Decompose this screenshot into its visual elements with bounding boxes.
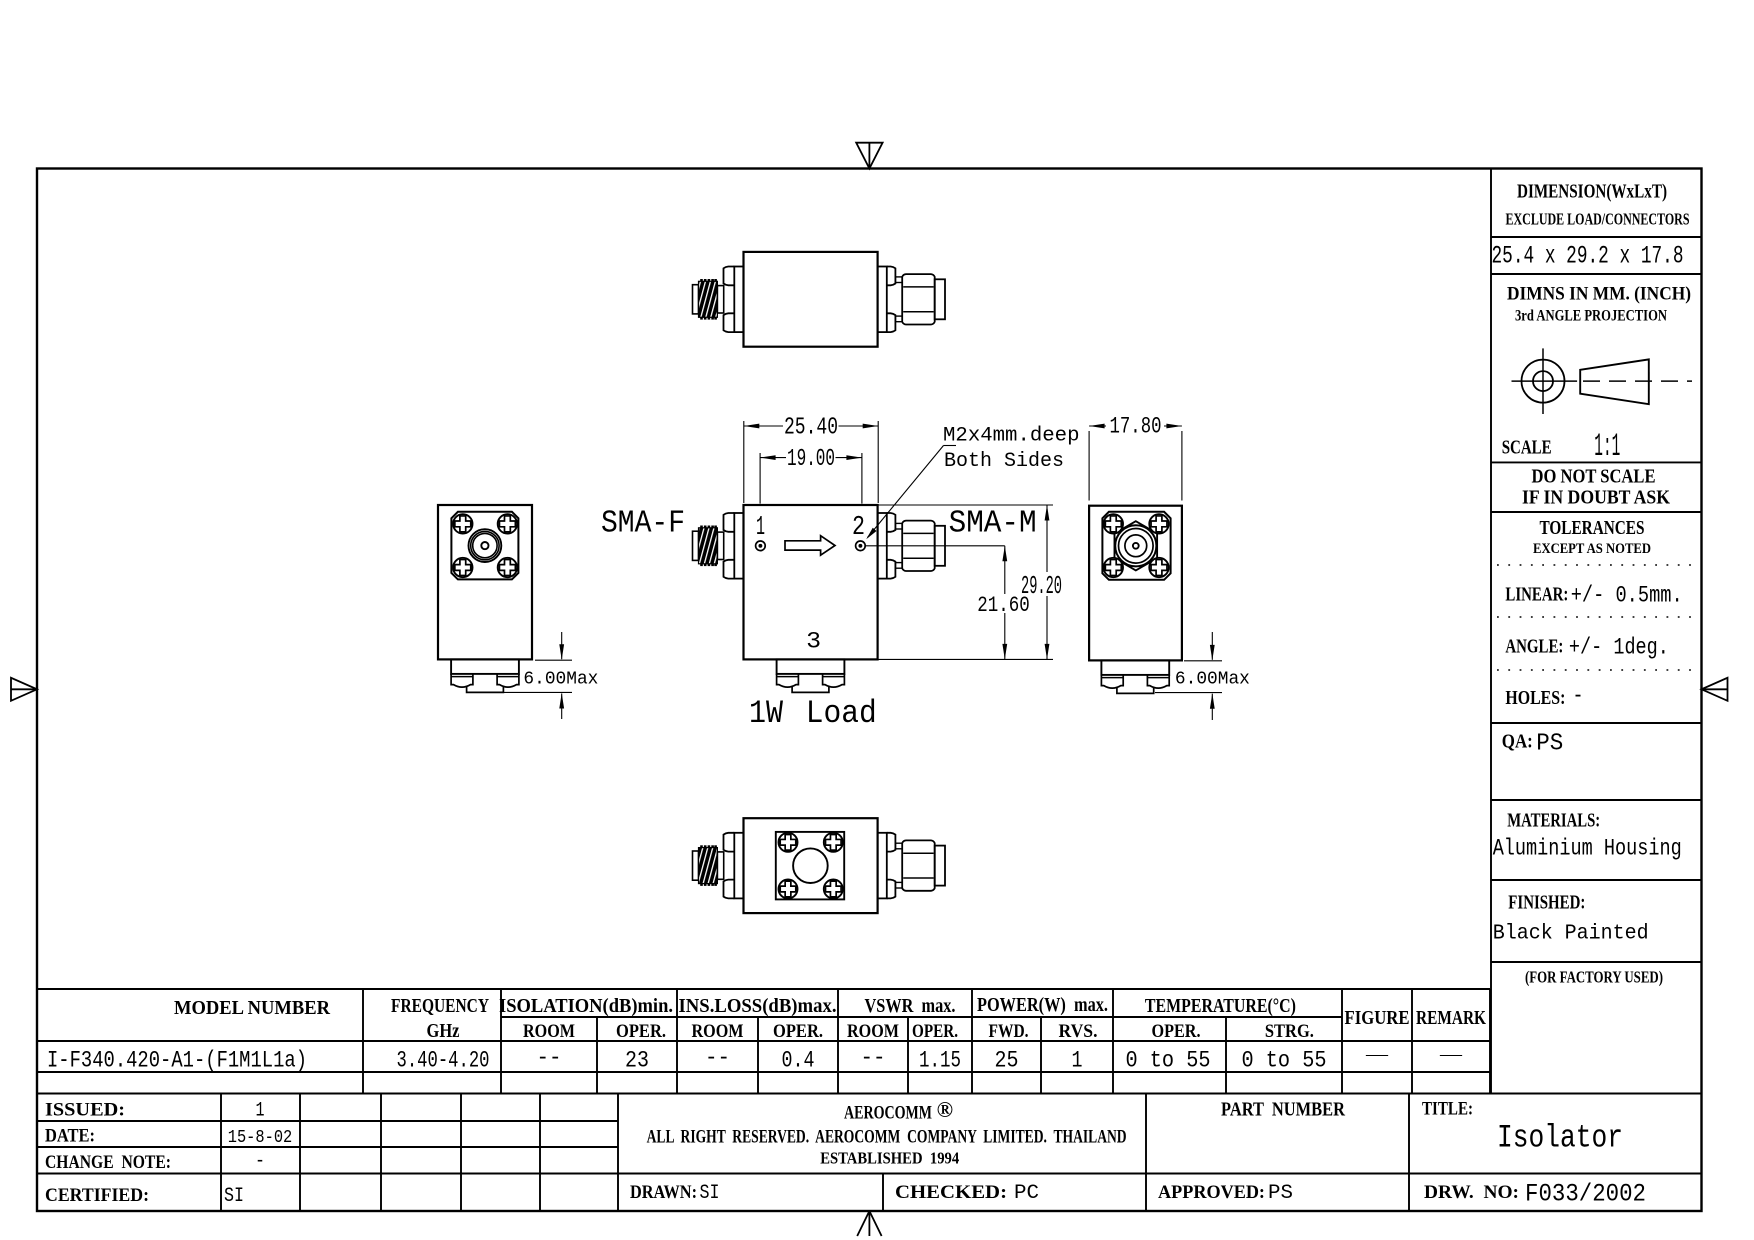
SMA-F flange plate	[734, 267, 743, 333]
svg-text:(FOR FACTORY USED): (FOR FACTORY USED)	[1525, 968, 1663, 987]
registration mark bottom	[868, 1211, 870, 1236]
svg-text:SMA-M: SMA-M	[949, 507, 1037, 542]
bottom view body	[744, 818, 878, 913]
svg-text:STRG.: STRG.	[1265, 1022, 1314, 1042]
SMA-M stub bottom	[895, 316, 902, 322]
info panel dividers	[1491, 236, 1702, 238]
SMA-M flange tab bottom	[887, 313, 896, 332]
svg-text:DIMNS IN MM. (INCH): DIMNS IN MM. (INCH)	[1507, 284, 1691, 305]
svg-text:HOLES:: HOLES:	[1505, 688, 1565, 709]
load body	[1101, 660, 1169, 675]
SMA-F mating face	[693, 851, 699, 880]
bottom block top line	[37, 1093, 1702, 1095]
svg-text:MATERIALS:: MATERIALS:	[1507, 811, 1600, 832]
svg-text:SI: SI	[700, 1182, 720, 1205]
svg-text:FWD.: FWD.	[989, 1022, 1029, 1042]
bottom block row lines	[37, 1120, 618, 1122]
svg-text:ALL RIGHT RESERVED. AEROCOM: ALL RIGHT RESERVED. AEROCOMM COMPANY LIM…	[647, 1127, 1127, 1148]
svg-text:1.15: 1.15	[919, 1048, 961, 1074]
svg-text:PART NUMBER: PART NUMBER	[1221, 1100, 1346, 1121]
right view flange plate	[1102, 512, 1170, 580]
svg-text:19.00: 19.00	[787, 446, 835, 473]
svg-text:6.00Max: 6.00Max	[1175, 669, 1250, 689]
SMA-F mating face	[693, 531, 699, 560]
svg-text:15-8-02: 15-8-02	[228, 1127, 293, 1148]
svg-text:VSWR max.: VSWR max.	[865, 996, 956, 1017]
load bottom plate	[792, 686, 829, 693]
SMA-F flange tab bottom	[724, 560, 735, 579]
svg-text:PS: PS	[1268, 1182, 1293, 1205]
load right foot	[823, 674, 845, 687]
svg-text:0.4: 0.4	[782, 1048, 815, 1074]
SMA-F flange plate	[734, 513, 743, 579]
svg-text:CERTIFIED:: CERTIFIED:	[45, 1185, 149, 1206]
svg-text:ISOLATION(dB)min.: ISOLATION(dB)min.	[499, 996, 673, 1017]
svg-text:EXCEPT AS NOTED: EXCEPT AS NOTED	[1533, 541, 1651, 557]
SMA-M stub top	[895, 277, 902, 283]
spec table horizontals	[501, 1016, 1342, 1018]
svg-text:PS: PS	[1536, 731, 1563, 758]
svg-text:25.4 x 29.2 x 17.8: 25.4 x 29.2 x 17.8	[1492, 242, 1684, 271]
svg-text:I-F340.420-A1-(F1M1L1a): I-F340.420-A1-(F1M1L1a)	[47, 1048, 307, 1074]
svg-text:CHECKED:: CHECKED:	[895, 1182, 1007, 1203]
SMA-M barrel	[935, 279, 945, 319]
bottom view load plate	[776, 832, 844, 900]
svg-text:Both Sides: Both Sides	[944, 450, 1064, 473]
svg-text:17.80: 17.80	[1110, 414, 1162, 440]
spec table verticals	[362, 989, 364, 1094]
load bottom plate	[467, 686, 504, 693]
SMA-F mating face	[693, 285, 699, 314]
svg-text:TITLE:: TITLE:	[1422, 1099, 1473, 1120]
dimension 21.60	[1004, 546, 1006, 594]
svg-text:IF IN DOUBT ASK: IF IN DOUBT ASK	[1522, 488, 1671, 509]
right view 17.80 dimension	[1088, 431, 1090, 501]
bottom load screw top-right	[824, 833, 843, 852]
load bottom plate	[1117, 687, 1154, 694]
svg-text:PC: PC	[1014, 1182, 1039, 1205]
svg-text:APPROVED:: APPROVED:	[1158, 1182, 1265, 1203]
SMA-F connector threaded barrel	[699, 281, 718, 317]
dimension 19.00	[759, 453, 761, 504]
SMA-F thread crests	[700, 279, 703, 281]
svg-text:CHANGE NOTE:: CHANGE NOTE:	[45, 1152, 171, 1173]
SMA-F connector threaded barrel	[699, 528, 718, 564]
svg-text:DRAWN:: DRAWN:	[630, 1182, 697, 1203]
extension line 29.20 top	[878, 504, 1053, 506]
svg-text:ESTABLISHED 1994: ESTABLISHED 1994	[820, 1149, 960, 1168]
load body	[451, 659, 519, 674]
projection symbol centreline	[1583, 380, 1692, 382]
svg-text:OPER.: OPER.	[616, 1022, 666, 1042]
drawing sheet border	[37, 169, 1702, 1212]
svg-text:1: 1	[756, 513, 765, 543]
svg-text:EXCLUDE LOAD/CONNECTORS: EXCLUDE LOAD/CONNECTORS	[1506, 210, 1690, 229]
left view screw bottom-left	[453, 558, 472, 577]
registration mark right	[1702, 678, 1728, 701]
svg-text:F033/2002: F033/2002	[1525, 1180, 1646, 1209]
svg-text:DIMENSION(WxLxT): DIMENSION(WxLxT)	[1517, 181, 1667, 203]
right view screw bottom-right	[1149, 558, 1168, 577]
SMA-M hex nut	[902, 274, 935, 324]
SMA-M stub top	[895, 843, 902, 849]
port 2 marker	[856, 541, 866, 551]
right view connector circles	[1115, 525, 1156, 566]
SMA-F flange tab top	[724, 833, 735, 852]
SMA-M hex nut	[902, 521, 935, 571]
left side view body	[438, 505, 532, 659]
dimension 29.20	[1046, 505, 1048, 572]
svg-text:0 to 55: 0 to 55	[1242, 1048, 1327, 1074]
info panel left edge	[1490, 169, 1492, 1095]
SMA-M barrel	[935, 526, 945, 566]
svg-text:ROOM: ROOM	[847, 1022, 899, 1042]
SMA-M hex nut	[902, 840, 935, 890]
svg-text:MODEL NUMBER: MODEL NUMBER	[174, 998, 331, 1019]
SMA-M flange plate	[878, 513, 887, 579]
right view screw bottom-left	[1104, 558, 1123, 577]
svg-text:RVS.: RVS.	[1059, 1022, 1098, 1042]
svg-text:TEMPERATURE(°C): TEMPERATURE(°C)	[1145, 996, 1296, 1017]
svg-text:Isolator: Isolator	[1497, 1120, 1623, 1157]
right side view body	[1089, 506, 1182, 661]
SMA-M flange plate	[878, 267, 887, 333]
svg-text:25.40: 25.40	[784, 415, 838, 442]
svg-text:3.40-4.20: 3.40-4.20	[397, 1048, 490, 1074]
SMA-M barrel	[935, 846, 945, 886]
left view screw bottom-right	[498, 558, 517, 577]
SMA-F collar	[717, 532, 723, 559]
svg-text:SCALE: SCALE	[1502, 438, 1552, 459]
svg-text:SI: SI	[224, 1185, 244, 1208]
load left foot	[1101, 675, 1123, 688]
svg-text:M2x4mm.deep: M2x4mm.deep	[943, 425, 1080, 448]
left view screw top-left	[453, 514, 472, 533]
svg-text:DATE:: DATE:	[45, 1126, 95, 1147]
SMA-F flange tab top	[724, 513, 735, 532]
bottom view load centre circle	[793, 848, 828, 883]
SMA-M flange tab bottom	[887, 880, 896, 899]
SMA-F collar	[717, 286, 723, 313]
SMA-M stub bottom	[895, 563, 902, 569]
left view screw top-right	[498, 514, 517, 533]
SMA-F flange tab bottom	[724, 880, 735, 899]
right view hex nut face	[1114, 521, 1157, 570]
svg-text:23: 23	[625, 1048, 649, 1074]
svg-text:INS.LOSS(dB)max.: INS.LOSS(dB)max.	[679, 996, 837, 1017]
svg-text:1: 1	[1072, 1048, 1083, 1074]
SMA-M stub top	[895, 523, 902, 529]
svg-text:Black Painted: Black Painted	[1493, 922, 1649, 945]
bottom load screw bottom-left	[779, 880, 798, 899]
svg-text:Load: Load	[806, 695, 877, 732]
dimension 25.40	[743, 421, 745, 503]
svg-text:3: 3	[806, 629, 821, 655]
SMA-F collar	[717, 852, 723, 879]
svg-text:+/- 1deg.: +/- 1deg.	[1569, 635, 1669, 661]
svg-text:TOLERANCES: TOLERANCES	[1540, 518, 1645, 539]
svg-text:1W: 1W	[749, 695, 784, 732]
load body	[777, 659, 845, 674]
svg-text:1: 1	[256, 1100, 265, 1123]
tolerances dotted separators	[1497, 564, 1692, 566]
SMA-M stub bottom	[895, 882, 902, 888]
svg-text:GHz: GHz	[427, 1021, 460, 1042]
projection symbol cone	[1580, 359, 1649, 404]
right view screw top-right	[1149, 514, 1168, 533]
load right foot	[497, 674, 519, 687]
SMA-F flange tab bottom	[724, 313, 735, 332]
svg-text:ROOM: ROOM	[692, 1022, 744, 1042]
svg-text:OPER.: OPER.	[773, 1022, 823, 1042]
dimension 21.60 reference line	[865, 545, 1004, 547]
SMA-M flange tab bottom	[887, 560, 896, 579]
right view 6.00Max dimension	[1184, 660, 1222, 662]
svg-text:DO NOT SCALE: DO NOT SCALE	[1532, 467, 1656, 488]
registration mark top	[856, 143, 882, 169]
bottom load screw top-left	[779, 833, 798, 852]
svg-text:ISSUED:: ISSUED:	[45, 1100, 125, 1121]
front view body	[744, 505, 878, 659]
svg-text:--: --	[861, 1045, 886, 1071]
svg-text:AEROCOMM: AEROCOMM	[844, 1103, 932, 1124]
svg-text:—: —	[1365, 1043, 1389, 1065]
SMA-F thread crests	[700, 526, 703, 528]
right view screw top-left	[1104, 514, 1123, 533]
port 1 marker	[756, 541, 766, 551]
svg-text:Aluminium Housing: Aluminium Housing	[1493, 836, 1682, 862]
svg-text:3rd ANGLE PROJECTION: 3rd ANGLE PROJECTION	[1515, 308, 1667, 325]
SMA-M flange tab top	[887, 267, 896, 286]
svg-text:OPER.: OPER.	[912, 1022, 958, 1042]
SMA-F connector threaded barrel	[699, 848, 718, 884]
spec table outer top	[37, 988, 1490, 990]
registration mark left	[11, 678, 37, 701]
svg-text:FREQUENCY: FREQUENCY	[391, 996, 489, 1017]
svg-text:--: --	[705, 1045, 730, 1071]
svg-text:-: -	[255, 1150, 265, 1173]
svg-text:®: ®	[937, 1097, 953, 1122]
svg-text:DRW. NO:: DRW. NO:	[1424, 1182, 1519, 1203]
SMA-F flange tab top	[724, 267, 735, 286]
top view body	[744, 252, 878, 347]
load left foot	[451, 674, 473, 687]
SMA-F flange plate	[734, 833, 743, 899]
left view 6.00Max dimension	[535, 659, 572, 661]
svg-text:POWER(W) max.: POWER(W) max.	[977, 995, 1108, 1016]
svg-text:FIGURE: FIGURE	[1345, 1008, 1410, 1029]
svg-text:ANGLE:: ANGLE:	[1505, 637, 1563, 658]
left view connector circles	[469, 529, 502, 562]
svg-text:REMARK: REMARK	[1416, 1008, 1487, 1029]
svg-text:1:1: 1:1	[1594, 428, 1620, 465]
svg-text:—: —	[1439, 1043, 1463, 1065]
svg-text:LINEAR:: LINEAR:	[1505, 585, 1568, 606]
SMA-M flange tab top	[887, 513, 896, 532]
svg-text:6.00Max: 6.00Max	[523, 669, 598, 689]
forward direction arrow	[785, 536, 835, 556]
svg-text:SMA-F: SMA-F	[601, 507, 685, 542]
load right foot	[1147, 675, 1169, 688]
svg-text:+/- 0.5mm.: +/- 0.5mm.	[1571, 583, 1683, 609]
projection symbol target circle	[1522, 360, 1565, 403]
svg-text:--: --	[537, 1045, 562, 1071]
extension line 29.20 bottom	[878, 658, 1053, 660]
svg-text:25: 25	[995, 1048, 1019, 1074]
bottom block verticals	[220, 1094, 222, 1212]
svg-text:ROOM: ROOM	[523, 1022, 575, 1042]
svg-text:0 to 55: 0 to 55	[1126, 1048, 1211, 1074]
SMA-M flange plate	[878, 833, 887, 899]
left view flange plate	[451, 512, 518, 580]
svg-text:FINISHED:: FINISHED:	[1508, 893, 1585, 914]
bottom load screw bottom-right	[824, 880, 843, 899]
svg-text:QA:: QA:	[1502, 732, 1533, 753]
SMA-F thread crests	[700, 845, 703, 847]
SMA-M flange tab top	[887, 833, 896, 852]
svg-text:29.20: 29.20	[1021, 571, 1062, 601]
note M2x4mm deep leader	[944, 445, 957, 447]
svg-text:-: -	[1573, 683, 1584, 709]
load left foot	[777, 674, 799, 687]
svg-text:2: 2	[852, 513, 865, 543]
svg-text:OPER.: OPER.	[1152, 1022, 1201, 1042]
